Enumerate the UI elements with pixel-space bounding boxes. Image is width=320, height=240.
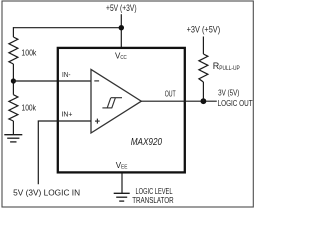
- wire IN+ from logic in: [38, 121, 91, 184]
- ground below VEE: [114, 193, 130, 201]
- svg-text:100k: 100k: [21, 49, 37, 58]
- svg-text:IN+: IN+: [61, 111, 72, 118]
- wire pull-up bottom to output node: [202, 82, 204, 101]
- svg-text:OUT: OUT: [165, 89, 176, 98]
- node junction dot divider tap: [11, 78, 16, 83]
- wire VEE to ground: [121, 174, 123, 194]
- svg-text:100k: 100k: [22, 104, 37, 113]
- svg-text:+3V (+5V): +3V (+5V): [187, 25, 221, 35]
- hysteresis symbol: [102, 98, 122, 108]
- node junction dot output: [201, 98, 207, 104]
- svg-text:IN-: IN-: [62, 72, 71, 79]
- svg-text:+5V (+3V): +5V (+3V): [106, 3, 137, 13]
- resistor R1 100k: [9, 37, 18, 64]
- border frame: [2, 1, 253, 207]
- node junction dot top: [119, 25, 124, 30]
- wire top horizontal to divider: [13, 27, 121, 29]
- wire IN- from tap to comparator: [13, 80, 91, 82]
- MAX920 box: [58, 48, 185, 172]
- resistor R2 100k: [9, 95, 18, 121]
- svg-text:MAX920: MAX920: [131, 137, 163, 148]
- minus input mark: [94, 80, 99, 82]
- wire rail top to R1: [12, 27, 14, 37]
- svg-text:5V (3V) LOGIC IN: 5V (3V) LOGIC IN: [13, 187, 80, 197]
- svg-text:3V (5V): 3V (5V): [218, 89, 240, 98]
- wire OUT to logic out: [141, 100, 217, 102]
- wire supply to pull-up: [202, 37, 204, 55]
- wire R1 bottom to R2 top: [12, 64, 14, 95]
- wire R2 bottom to ground: [12, 121, 14, 135]
- svg-text:TRANSLATOR: TRANSLATOR: [132, 196, 174, 205]
- svg-text:LOGIC LEVEL: LOGIC LEVEL: [136, 187, 173, 196]
- resistor RPULL-UP: [199, 54, 208, 82]
- svg-text:LOGIC OUT: LOGIC OUT: [218, 99, 253, 108]
- ground left: [4, 135, 22, 142]
- plus input mark: [95, 119, 100, 124]
- op-amp U1 comparator triangle: [91, 69, 141, 133]
- wire supply drop to VCC: [120, 14, 122, 47]
